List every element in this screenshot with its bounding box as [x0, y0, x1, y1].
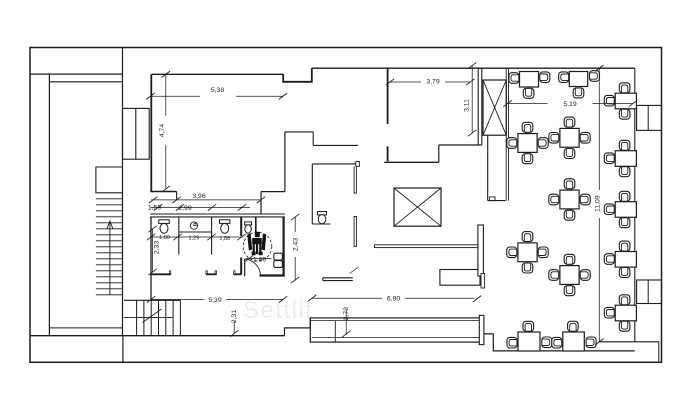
svg-text:5,19: 5,19 — [563, 101, 576, 108]
svg-text:1,29: 1,29 — [188, 235, 199, 241]
svg-text:3,11: 3,11 — [463, 99, 470, 112]
dining east inner wall — [634, 68, 636, 342]
dimension labels — [148, 78, 602, 323]
vanity counter — [179, 231, 212, 233]
svg-text:2,33: 2,33 — [154, 241, 161, 254]
disabled bottom wall — [260, 274, 285, 276]
D 5,19 — [508, 103, 548, 105]
tables top row — [509, 71, 600, 99]
partition stubs x=355 — [353, 166, 355, 193]
table cluster right column 5 — [604, 295, 636, 331]
svg-text:1,80: 1,80 — [253, 256, 266, 263]
D 3,79 — [390, 81, 421, 83]
svg-text:11,09: 11,09 — [595, 195, 602, 212]
wall x=284.9 room right — [284, 132, 286, 192]
shaft with X — [394, 188, 441, 226]
wall y=163.9 — [312, 163, 356, 165]
toilet west wall — [150, 217, 152, 300]
table cluster right column 2 — [604, 140, 636, 176]
bottom-left walls — [30, 318, 310, 362]
core box — [123, 108, 150, 159]
table cluster right column 3 — [604, 191, 636, 227]
wall step x=283 — [283, 68, 312, 82]
table cluster right column 4 — [604, 241, 636, 277]
corridor south wall — [323, 277, 353, 279]
disabled right wall — [283, 217, 285, 277]
bottom stubs — [151, 273, 171, 275]
table cluster right column 1 — [604, 83, 636, 119]
D 1,80 slash — [246, 258, 272, 260]
kitchen wall y=162.3 — [384, 161, 439, 163]
table cluster middle column 2 — [549, 179, 590, 220]
dimensions — [146, 62, 637, 345]
stall dividers — [178, 217, 180, 255]
dining west wall — [505, 68, 507, 200]
wall x=176.6 — [176, 192, 178, 200]
pantry WC — [318, 212, 327, 215]
svg-text:2,73: 2,73 — [343, 307, 350, 320]
wheelchair symbol — [243, 232, 272, 261]
wall x=261 — [260, 192, 262, 214]
kitchen box — [440, 270, 480, 286]
svg-text:5,39: 5,39 — [208, 297, 221, 304]
bar counter — [310, 315, 484, 344]
door arc — [245, 259, 261, 277]
D 4,74 — [165, 74, 167, 116]
thin counter — [375, 245, 479, 248]
svg-text:1,00: 1,00 — [159, 235, 170, 241]
disabled room furniture — [274, 253, 283, 267]
landing box — [96, 167, 123, 193]
kitchen partition x=387.6 lower — [387, 146, 389, 161]
wall y=145.4 — [313, 144, 358, 146]
basin — [190, 222, 197, 229]
svg-text:3,96: 3,96 — [192, 193, 205, 200]
X-box window — [483, 80, 506, 135]
cap box — [356, 161, 360, 166]
wall y=224 — [312, 223, 330, 225]
D 2,31 — [233, 321, 235, 334]
wall y=81.8 left — [49, 81, 122, 83]
wall top y=68 — [312, 67, 635, 69]
D 11,09 — [598, 68, 600, 190]
kitchen wall x=438.8 — [438, 145, 440, 162]
table cluster left column 1 — [507, 122, 548, 163]
niche stub — [255, 217, 257, 234]
wall y=191.5 — [150, 191, 176, 193]
wall corridor x=49 — [48, 74, 50, 336]
small box — [490, 197, 495, 201]
door leaf — [244, 259, 246, 277]
fixtures — [159, 212, 327, 234]
door hooks — [169, 271, 171, 274]
svg-text:2,31: 2,31 — [231, 310, 238, 323]
wall x=122.5 — [122, 48, 124, 336]
dining bottom walls — [484, 68, 662, 362]
svg-text:4,74: 4,74 — [159, 124, 166, 137]
wall y=191.6 — [261, 191, 285, 193]
svg-text:3,79: 3,79 — [426, 78, 439, 85]
D 6,90 — [312, 297, 382, 299]
svg-text:2,99: 2,99 — [178, 205, 191, 212]
svg-text:1,88: 1,88 — [219, 236, 230, 242]
WC2 — [220, 220, 230, 224]
toilet top wall double — [150, 213, 285, 215]
wall x=312.3 — [311, 164, 313, 224]
table cluster left column 2 — [507, 232, 548, 273]
outer wall — [30, 48, 662, 363]
D 2,43 — [294, 217, 296, 232]
D 5,38 — [151, 95, 201, 97]
kitchen wall y=145 right — [439, 144, 482, 146]
wall top band y=74 — [30, 73, 123, 75]
stairs lower — [124, 300, 181, 335]
svg-text:5,38: 5,38 — [211, 87, 224, 94]
window bays — [637, 105, 662, 130]
svg-text:2,43: 2,43 — [293, 238, 300, 251]
tables bottom row — [507, 321, 596, 351]
D 2,33 — [152, 229, 154, 272]
WC3 — [245, 222, 252, 225]
WC1 — [159, 220, 169, 224]
svg-text:6,90: 6,90 — [387, 296, 400, 303]
wall y=200.6 — [488, 200, 506, 202]
duct wall x=487.7 — [487, 135, 489, 200]
D 2,73 — [345, 309, 347, 335]
D 3,96 — [151, 199, 261, 201]
svg-text:1,59: 1,59 — [148, 205, 161, 212]
svg-text:Settlit: Settlit — [243, 297, 314, 324]
stall D wall segments — [240, 217, 242, 236]
toilet block — [150, 192, 285, 301]
tick near partition — [350, 267, 359, 274]
D 3,11 — [471, 66, 473, 134]
kitchen east wall double — [477, 68, 479, 145]
table cluster middle column 1 — [549, 117, 590, 158]
table cluster middle column 3 — [549, 254, 590, 295]
wall x=313 upper — [312, 132, 314, 146]
D chain y=207.4 — [151, 206, 251, 208]
stairs upper — [96, 199, 123, 295]
D chain y=237 — [151, 236, 243, 238]
kitchen partition x=387.6 upper — [387, 68, 389, 124]
wall x=150 — [150, 74, 152, 191]
kitchen balk — [478, 225, 484, 276]
wall y=131.9 — [285, 131, 313, 133]
D 5,39 — [151, 298, 204, 300]
stair direction line + arrow — [109, 222, 111, 295]
